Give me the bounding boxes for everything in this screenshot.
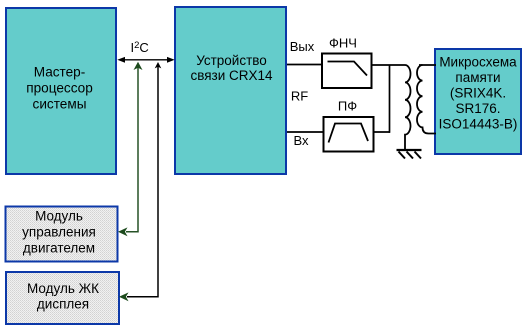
wire LPF output rail to transformer top bbox=[371, 64, 405, 66]
filter F2 band-pass filter box bbox=[324, 117, 374, 152]
svg-text:Модуль: Модуль bbox=[35, 209, 83, 224]
svg-text:Микросхема: Микросхема bbox=[439, 55, 517, 70]
svg-text:RF: RF bbox=[291, 89, 308, 104]
block U5 LCD display module box bbox=[6, 272, 119, 324]
svg-text:I2C: I2C bbox=[131, 40, 149, 55]
svg-text:SR176.: SR176. bbox=[455, 101, 500, 116]
svg-text:ISO14443-B): ISO14443-B) bbox=[439, 117, 518, 132]
block U1 master processor box bbox=[6, 8, 116, 174]
inductor L2 transformer secondary winding bbox=[417, 65, 436, 134]
svg-text:памяти: памяти bbox=[455, 70, 500, 85]
svg-text:управления: управления bbox=[22, 225, 96, 240]
block U2 CRX14 communication device box bbox=[175, 7, 286, 174]
svg-text:процессор: процессор bbox=[26, 81, 93, 96]
block U3 memory chip box bbox=[435, 49, 521, 154]
wire BPF output to junction bbox=[373, 131, 390, 133]
svg-text:ПФ: ПФ bbox=[338, 99, 357, 114]
wire black I2C branch to LCD module bbox=[119, 62, 161, 301]
block U4 motor control module box bbox=[6, 207, 118, 262]
wire green I2C branch to motor module bbox=[118, 62, 143, 236]
wire CRX14 output to LPF bbox=[287, 64, 322, 66]
svg-text:системы: системы bbox=[33, 97, 87, 112]
inductor L1 transformer primary winding bbox=[405, 65, 411, 149]
svg-text:дисплея: дисплея bbox=[37, 297, 89, 312]
filter F1 low-pass filter box bbox=[322, 54, 372, 89]
svg-text:Вх: Вх bbox=[293, 133, 309, 148]
wire I2C bus double arrow bbox=[117, 57, 174, 63]
svg-text:ФНЧ: ФНЧ bbox=[329, 36, 357, 51]
svg-text:связи CRX14: связи CRX14 bbox=[190, 68, 273, 83]
ground symbol bbox=[397, 150, 422, 159]
svg-text:двигателем: двигателем bbox=[23, 241, 95, 256]
svg-text:Модуль ЖК: Модуль ЖК bbox=[27, 281, 99, 296]
wire junction vertical bbox=[389, 65, 391, 133]
svg-text:Устройство: Устройство bbox=[196, 53, 267, 68]
svg-text:Мастер-: Мастер- bbox=[34, 65, 86, 80]
wire transformer secondary top to memory chip bbox=[419, 64, 436, 66]
svg-text:Вых: Вых bbox=[290, 39, 315, 54]
wire CRX14 input from BPF bbox=[287, 131, 324, 133]
svg-text:(SRIX4K.: (SRIX4K. bbox=[450, 86, 506, 101]
